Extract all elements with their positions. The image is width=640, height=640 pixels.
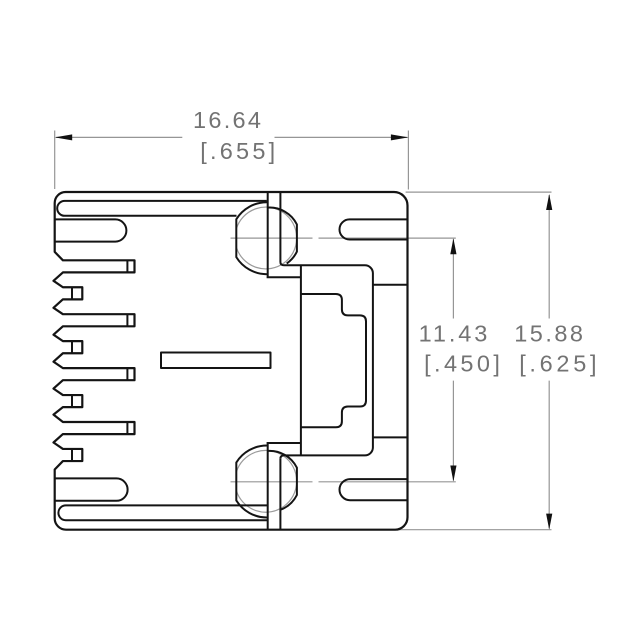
divider tooth 1 [126,260,128,272]
svg-text:[.655]: [.655] [200,138,275,164]
arrowhead bottom of 11.43 [450,466,456,482]
top latch slot [57,201,267,216]
svg-text:15.88: 15.88 [514,320,583,346]
wall line lower right [373,436,408,438]
bottom latch slot [58,505,267,520]
arrowhead top of 11.43 [450,238,456,254]
extension line bottom for 15.88 [394,529,552,531]
top post large arc with left flat [236,202,267,274]
divider tooth D [71,449,73,461]
divider tooth C [71,395,73,407]
body outline with contact teeth [54,192,408,530]
svg-text:11.43: 11.43 [419,320,488,346]
arrowhead right of 16.64 [391,134,409,140]
divider tooth 4 [126,422,128,434]
bottom left tab [55,478,128,500]
divider tooth B [71,341,73,353]
bottom post small arc with right flat [268,451,297,510]
cavity outline [280,262,373,459]
centerline of bottom post / extension line for 11.43 bottom [231,481,456,483]
top right slot [339,219,407,239]
divider tooth A [71,287,73,299]
top post rib [267,192,301,277]
extension line right for 16.64 [407,131,409,190]
center pad rectangle [161,353,271,369]
centerline of top post / extension line for 11.43 top [231,237,456,239]
wall line upper right [373,284,408,286]
extension line left for 16.64 [54,131,56,190]
divider tooth 2 [126,314,128,326]
gray circle of top post [236,207,296,269]
bottom post large arc with left flat [236,445,267,517]
arrowhead top of 15.88 [546,194,552,210]
top left tab [55,219,127,241]
svg-text:[.625]: [.625] [519,350,596,376]
svg-text:16.64: 16.64 [193,107,261,133]
bottom post rib [267,443,301,530]
cavity left edge [300,265,302,455]
top post small arc with right flat [268,208,297,264]
divider tooth 3 [126,368,128,380]
stepped plug profile [301,294,366,427]
arrowhead left of 16.64 [55,134,72,140]
gray circle of bottom post [236,450,296,512]
extension line top for 15.88 [406,191,552,193]
dimension line 15.88 [548,195,550,529]
arrowhead bottom of 15.88 [546,514,552,530]
dimension line 16.64 [56,136,407,138]
bottom right slot [340,479,408,500]
dimension line 11.43 [452,239,454,480]
svg-text:[.450]: [.450] [424,350,500,376]
